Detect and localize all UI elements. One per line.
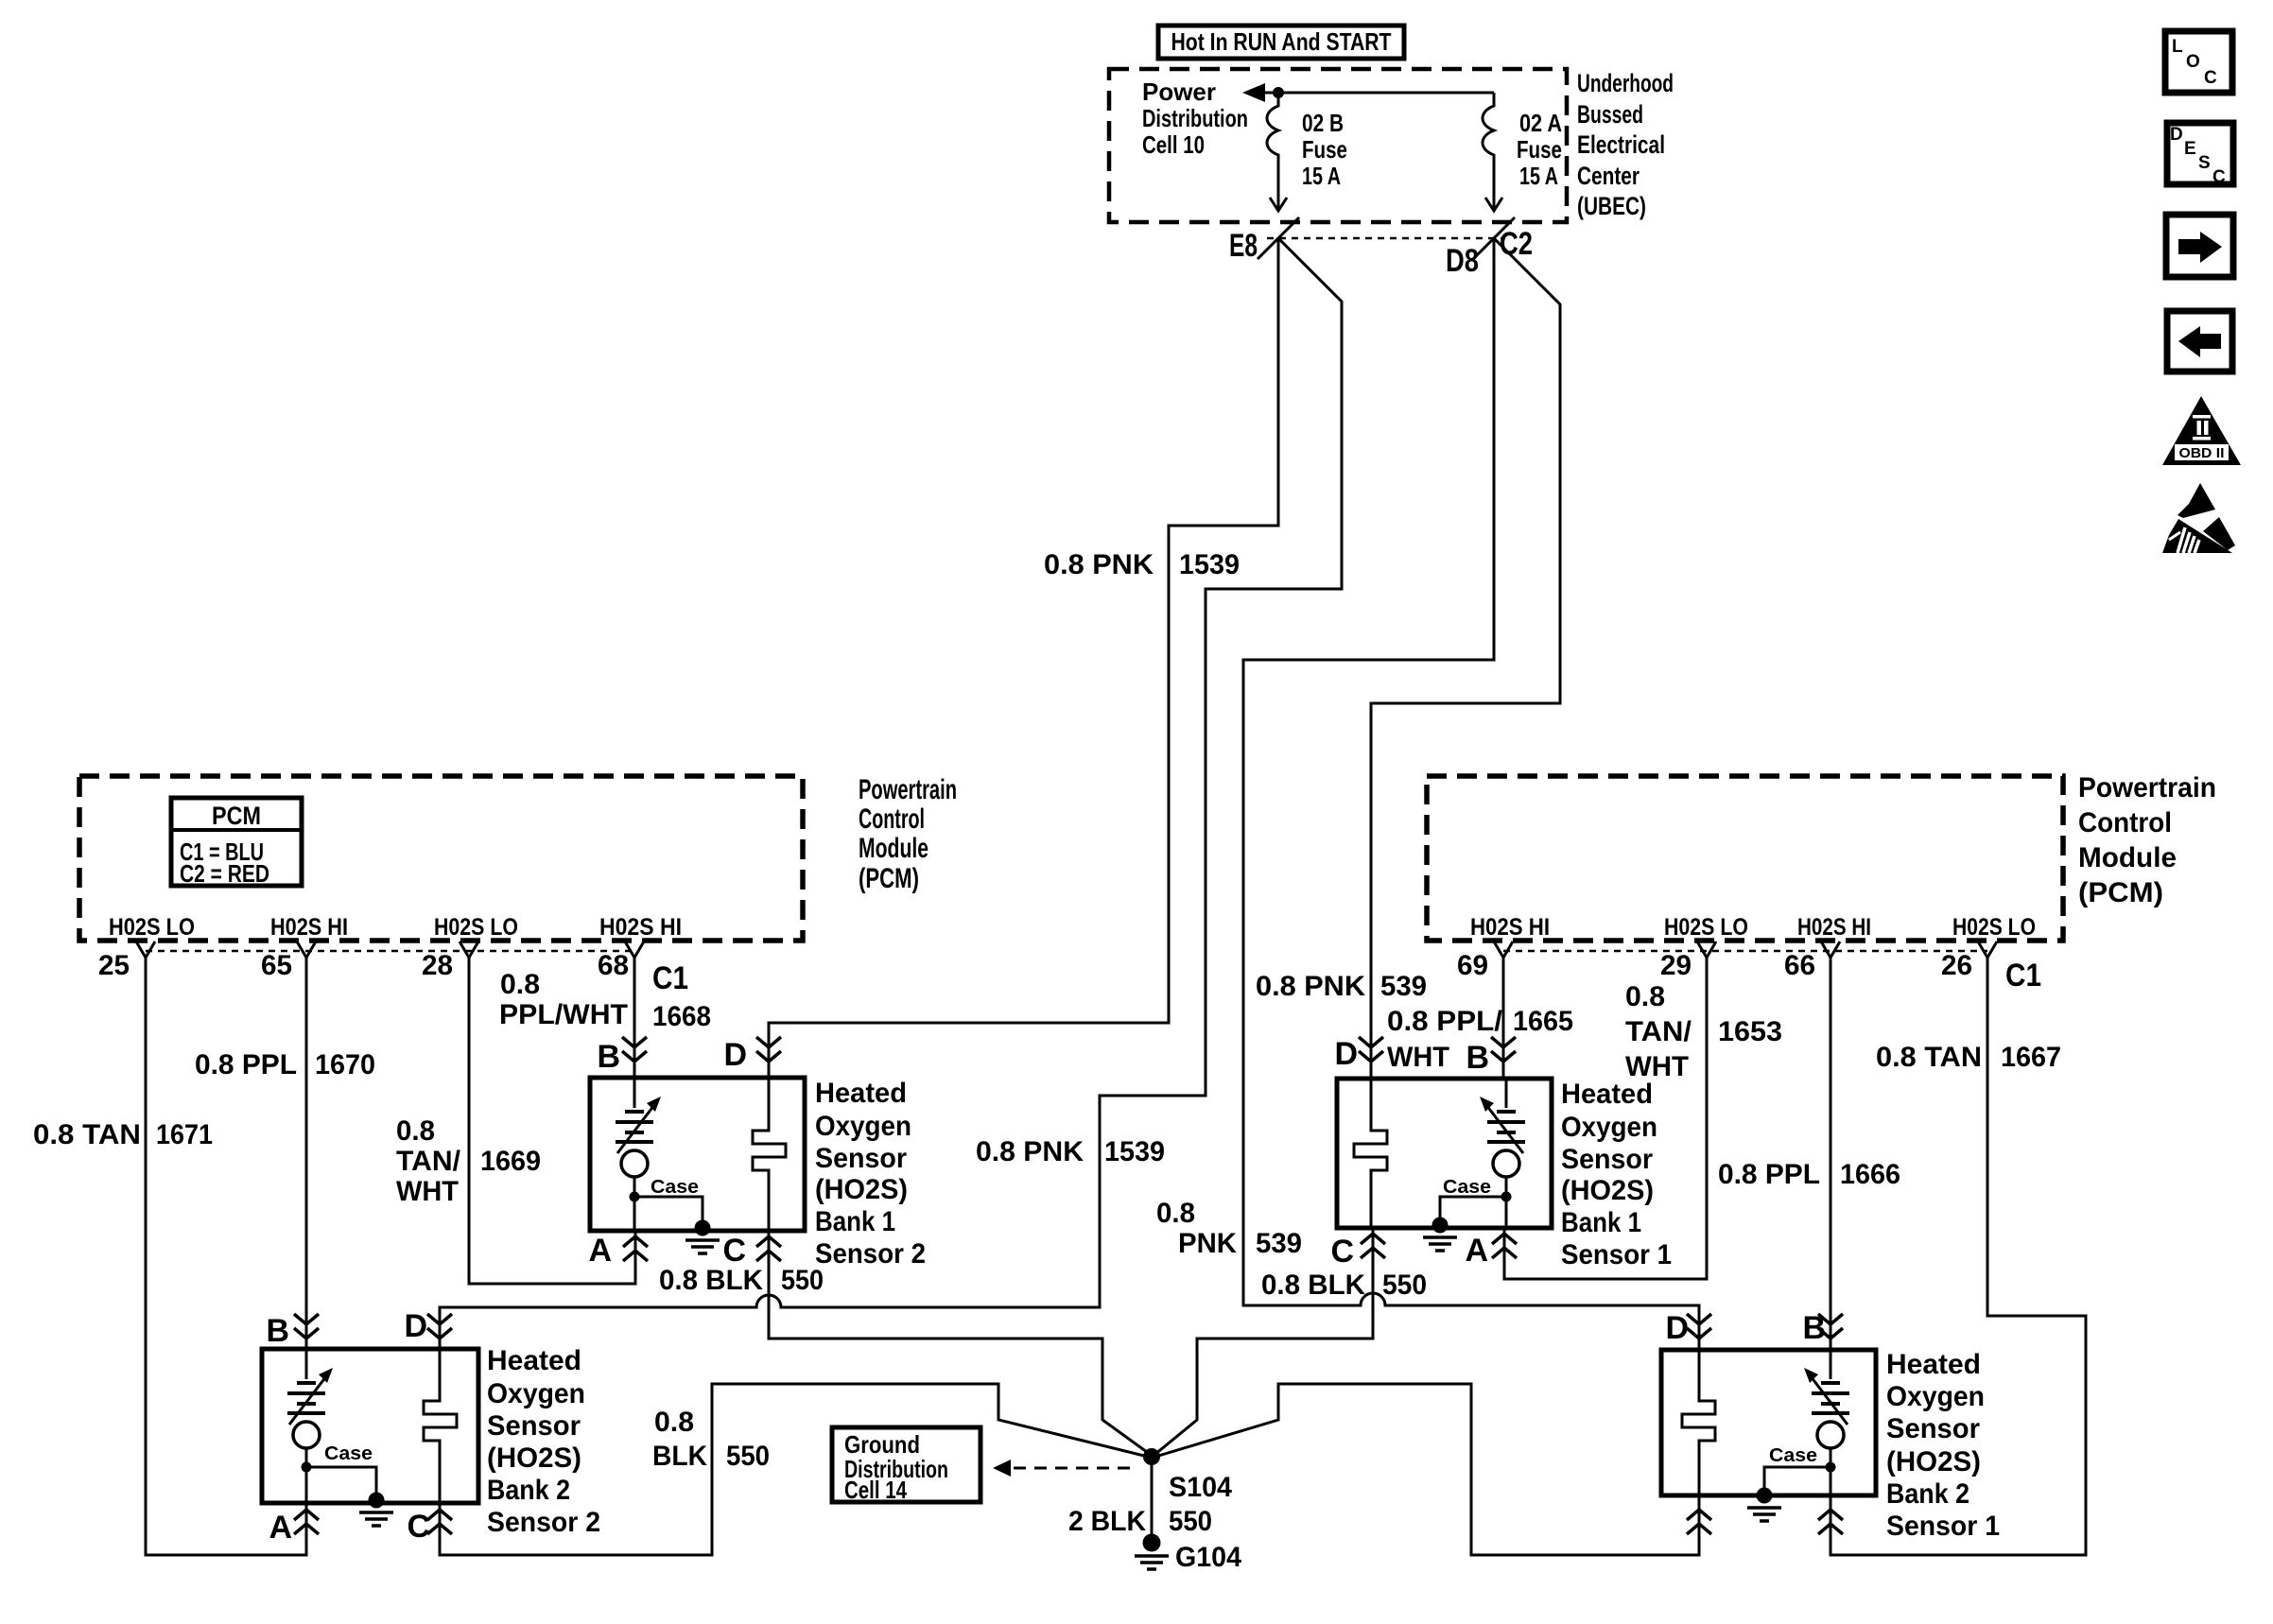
B1S1 internal ground [1423,1218,1457,1252]
svg-text:Hot In RUN And START: Hot In RUN And START [1171,27,1392,56]
svg-text:A: A [269,1510,292,1546]
B2S2 case node dot [302,1462,312,1473]
wire 2 BLK 550 S104 to G104 [1151,1457,1154,1539]
B1S2 pin B chevrons [622,1037,647,1062]
B2S1 pin D chevrons [1687,1314,1711,1339]
label 0.8 PPL/WHT 1668 [499,969,711,1032]
svg-text:0.8 PNK: 0.8 PNK [1044,549,1154,580]
UBEC dashed box [1109,69,1567,222]
label Underhood Bussed Electrical Center (UBEC) [1577,69,1674,220]
svg-text:TAN/: TAN/ [396,1146,461,1177]
fuse 02A 15A [1483,93,1562,211]
svg-text:Control: Control [859,803,925,835]
svg-text:D: D [2170,125,2183,145]
svg-text:Heated: Heated [815,1078,907,1109]
svg-text:Module: Module [2078,842,2177,873]
svg-text:Sensor 2: Sensor 2 [815,1238,926,1270]
B1S2 internal ground [685,1220,720,1254]
arrow to power distribution [1242,83,1265,102]
svg-text:B: B [1466,1040,1489,1076]
svg-text:1669: 1669 [480,1146,541,1177]
svg-text:H02S LO: H02S LO [1952,914,2036,941]
svg-text:Case: Case [324,1443,373,1464]
svg-text:Sensor 2: Sensor 2 [487,1507,600,1538]
svg-text:0.8 PPL/: 0.8 PPL/ [1387,1006,1503,1037]
svg-text:(PCM): (PCM) [859,863,919,894]
svg-text:Control: Control [2078,807,2172,838]
B1S2 label Heated Oxygen Sensor (HO2S) Bank 1 Sensor 2 [815,1078,926,1270]
icon OBD II triangle [2162,396,2241,465]
svg-text:550: 550 [726,1441,770,1472]
svg-text:02 A: 02 A [1519,109,1562,137]
svg-text:C: C [2204,68,2217,88]
svg-text:1653: 1653 [1718,1016,1782,1047]
B1S2 pin A chevrons [623,1236,648,1261]
svg-text:H02S HI: H02S HI [1470,914,1550,941]
svg-text:O: O [2186,52,2200,72]
B1S2 case wire to ground [634,1197,703,1224]
svg-text:H02S HI: H02S HI [599,914,682,941]
svg-text:Powertrain: Powertrain [859,774,957,805]
B2S2 heater element [424,1349,457,1503]
pin 69 [1457,942,1513,981]
svg-text:Bank 2: Bank 2 [487,1475,570,1506]
svg-text:550: 550 [1169,1506,1212,1537]
svg-text:Sensor: Sensor [487,1410,581,1442]
svg-text:1539: 1539 [1104,1136,1165,1167]
label 0.8 BLK 550 (B1S2) [659,1265,824,1296]
label 0.8 BLK 550 (B2S2) [652,1407,770,1472]
label 0.8 PPL 1666 [1718,1159,1900,1190]
svg-text:Bank 1: Bank 1 [1561,1207,1641,1238]
PCM left dashed box [79,776,803,941]
svg-text:550: 550 [1382,1270,1427,1301]
HO2S Bank2 Sensor2 box [262,1349,478,1503]
svg-text:PNK: PNK [1178,1228,1237,1259]
wire 0.8 TAN 1667 pin26 to HO2S B2S1 pin A [1831,976,2086,1555]
B1S1 label Heated Oxygen Sensor (HO2S) Bank 1 Sensor 1 [1561,1079,1672,1270]
svg-text:Power: Power [1142,78,1216,106]
B2S1 internal ground [1747,1488,1781,1522]
B2S1 pin B chevrons [1818,1314,1843,1339]
icon DESC box [2167,123,2233,187]
svg-text:PPL/WHT: PPL/WHT [499,999,628,1030]
svg-text:0.8: 0.8 [500,969,540,1000]
HO2S Bank1 Sensor1 box [1337,1079,1552,1228]
B1S2 pin D chevrons [756,1037,781,1062]
svg-text:C: C [407,1509,430,1545]
pin 68 [598,942,644,981]
svg-text:0.8 PPL: 0.8 PPL [1718,1159,1820,1190]
svg-text:C1: C1 [652,960,688,996]
svg-text:H02S LO: H02S LO [109,914,195,941]
B2S2 case wire to ground [306,1467,376,1495]
svg-text:Heated: Heated [1886,1349,1981,1380]
svg-text:2 BLK: 2 BLK [1068,1506,1146,1537]
wire 0.8 PNK 539 C2 to HO2S B1S1 pin D [1371,238,1560,1079]
svg-text:15 A: 15 A [1302,162,1341,190]
arrow to ground distribution [993,1460,1011,1477]
label 0.8 PNK 1539 upper [1044,549,1240,580]
B1S1 heater element [1354,1079,1387,1228]
svg-text:C: C [722,1233,746,1269]
svg-text:0.8: 0.8 [1625,981,1665,1012]
svg-text:B: B [597,1039,620,1075]
B2S2 sensing element (variable source) [287,1349,333,1503]
wire 0.8 BLK 550 from HO2S B1S2 pin C to S104 [769,1231,1151,1455]
svg-text:539: 539 [1256,1228,1302,1259]
icon ESD symbol [2162,483,2235,553]
B1S1 case wire to ground [1440,1197,1506,1221]
svg-text:0.8 BLK: 0.8 BLK [1261,1270,1365,1301]
svg-text:(HO2S): (HO2S) [487,1443,581,1474]
wire 0.8 PNK 1539 E8 to HO2S B1S2 pin D [769,238,1278,1078]
B1S1 sensing element (variable source) [1480,1079,1525,1228]
B2S2 pin D chevrons [427,1314,452,1339]
B1S1 pin C chevrons [1361,1234,1385,1258]
Ground Distribution Cell 14 box [832,1427,980,1504]
icon LOC box [2165,31,2232,93]
wire bus from fuses to arrow [1265,92,1494,95]
label 0.8 TAN/WHT 1653 [1625,981,1782,1082]
svg-text:26: 26 [1941,950,1972,981]
svg-text:29: 29 [1660,950,1692,981]
wire 0.8 PPL/WHT 1665 pin69 to HO2S B1S1 pin B [1502,976,1505,1079]
svg-text:1671: 1671 [156,1119,213,1150]
svg-text:Electrical: Electrical [1577,130,1665,159]
svg-text:Heated: Heated [1561,1079,1653,1110]
HO2S Bank1 Sensor2 box [590,1078,805,1231]
B1S1 case node dot [1501,1192,1512,1202]
svg-text:B: B [1802,1310,1826,1346]
B1S2 heater element [753,1078,786,1231]
B2S2 pin A chevrons [294,1510,319,1534]
svg-text:Underhood: Underhood [1577,69,1674,97]
B2S2 pin B chevrons [294,1314,319,1339]
B2S1 lower-left pin chevrons [1687,1510,1711,1534]
B2S2 internal ground [359,1493,393,1527]
svg-text:0.8: 0.8 [1156,1198,1195,1229]
svg-text:D8: D8 [1446,243,1479,279]
svg-text:539: 539 [1380,971,1427,1002]
svg-text:PCM: PCM [212,802,261,830]
svg-text:1668: 1668 [652,1001,711,1032]
svg-text:0.8: 0.8 [396,1115,435,1147]
svg-text:Sensor: Sensor [815,1143,907,1174]
svg-text:Cell 10: Cell 10 [1142,130,1205,159]
svg-text:Fuse: Fuse [1302,135,1347,164]
wire 0.8 BLK 550 from HO2S B2S2 pin C to S104 [440,1384,1148,1555]
svg-text:1665: 1665 [1513,1006,1573,1037]
wire 0.8 TAN 1671 pin25 to HO2S B2S2 pin A [146,976,306,1555]
label 0.8 PNK 539 lower [1156,1198,1302,1259]
B1S1 pin B chevrons [1491,1037,1516,1062]
B2S1 heater element [1682,1350,1715,1495]
svg-text:0.8 PNK: 0.8 PNK [976,1136,1084,1167]
HO2S Bank2 Sensor1 box [1661,1350,1876,1495]
svg-text:B: B [266,1313,289,1349]
svg-text:E: E [2184,139,2196,159]
svg-text:Oxygen: Oxygen [815,1111,911,1142]
wire from HO2S B2S1 ground pin to S104 [1155,1384,1699,1555]
svg-text:Oxygen: Oxygen [487,1378,585,1409]
svg-text:OBD II: OBD II [2179,445,2225,461]
svg-text:1670: 1670 [315,1049,375,1080]
wire 0.8 PPL/WHT 1668 pin68 to HO2S B1S2 pin B [633,976,636,1078]
svg-text:0.8 BLK: 0.8 BLK [659,1265,763,1296]
wire 0.8 TAN/WHT 1653 pin29 to HO2S B1S1 pin A [1504,976,1707,1279]
right PCM connector C1 dashed line [1503,950,1987,953]
label 0.8 PPL/WHT 1665 [1387,1006,1573,1073]
svg-text:Bussed: Bussed [1577,100,1643,129]
B2S1 lower-right pin chevrons [1818,1510,1843,1534]
svg-text:Distribution: Distribution [1142,104,1248,132]
svg-text:A: A [588,1233,612,1269]
svg-text:BLK: BLK [652,1441,707,1472]
icon back arrow box [2167,311,2232,371]
label 0.8 PPL 1670 [195,1049,375,1080]
label 0.8 PNK 1539 lower [976,1136,1165,1167]
svg-text:Heated: Heated [487,1345,581,1376]
svg-text:Sensor 1: Sensor 1 [1886,1511,2000,1542]
svg-text:TAN/: TAN/ [1625,1016,1692,1047]
splice S104 [1143,1448,1160,1465]
svg-text:Case: Case [1769,1445,1817,1466]
svg-text:Sensor: Sensor [1886,1413,1980,1444]
svg-text:C: C [2212,167,2226,187]
icon forward arrow box [2166,215,2233,277]
B1S1 pin D chevrons [1359,1037,1383,1062]
label Powertrain Control Module (PCM) right [2078,772,2216,908]
svg-text:0.8 TAN: 0.8 TAN [1876,1042,1982,1073]
svg-text:1539: 1539 [1179,549,1240,580]
svg-text:S104: S104 [1169,1472,1232,1503]
svg-text:Oxygen: Oxygen [1886,1381,1985,1412]
B2S1 sensing element (variable source) [1804,1350,1849,1495]
svg-text:1667: 1667 [2001,1042,2061,1073]
svg-text:WHT: WHT [396,1176,459,1207]
connector pin C2 [1473,217,1533,262]
svg-text:1666: 1666 [1840,1159,1900,1190]
svg-text:D: D [1334,1036,1358,1072]
connector pin E8 [1229,217,1299,264]
label 0.8 TAN 1671 [33,1119,213,1150]
svg-text:(HO2S): (HO2S) [1561,1175,1654,1206]
svg-text:25: 25 [98,950,130,981]
svg-text:Cell 14: Cell 14 [844,1476,907,1504]
svg-text:D: D [404,1308,427,1344]
svg-text:Bank 1: Bank 1 [815,1206,895,1237]
svg-text:C2 = RED: C2 = RED [180,859,269,888]
svg-text:69: 69 [1457,950,1488,981]
pin 26 [1941,942,1997,981]
pin 25 [98,942,155,981]
svg-text:H02S HI: H02S HI [270,914,348,941]
label Powertrain Control Module (PCM) left [859,774,957,894]
B1S1 pin A chevrons [1492,1234,1517,1258]
svg-text:0.8 PNK: 0.8 PNK [1256,971,1365,1002]
svg-text:(HO2S): (HO2S) [815,1174,908,1205]
svg-text:H02S LO: H02S LO [1664,914,1748,941]
svg-text:H02S HI: H02S HI [1797,914,1871,941]
label 0.8 PNK 539 upper [1256,971,1427,1002]
pin 29 [1660,942,1716,981]
svg-text:65: 65 [261,950,292,981]
fuse 02B 15A [1267,93,1347,211]
svg-text:Center: Center [1577,162,1640,190]
svg-text:Oxygen: Oxygen [1561,1112,1657,1143]
svg-text:28: 28 [422,950,453,981]
wire 0.8 PPL 1670 pin65 to HO2S B2S2 pin B [305,976,308,1349]
svg-text:L: L [2172,37,2183,57]
svg-text:Bank 2: Bank 2 [1886,1478,1969,1510]
wire 0.8 BLK 550 from HO2S B1S1 pin C to S104 [1154,1228,1373,1455]
svg-text:C1: C1 [2005,958,2041,993]
pin 28 [422,942,478,981]
B2S1 case node dot [1826,1462,1836,1473]
ground G104 [1135,1534,1169,1570]
B2S1 label Heated Oxygen Sensor (HO2S) Bank 2 Sensor 1 [1886,1349,2000,1542]
node junction dot above fuse 02B [1273,87,1284,98]
B2S2 pin C chevrons [427,1510,452,1534]
pin 66 [1784,942,1840,981]
PCM legend box C1=BLU C2=RED [171,798,302,888]
hot feed title box [1158,26,1404,59]
svg-text:0.8: 0.8 [654,1407,694,1438]
svg-text:A: A [1465,1233,1488,1269]
svg-text:H02S LO: H02S LO [434,914,518,941]
wire 0.8 PPL 1666 pin66 to HO2S B2S1 pin B [1830,976,1832,1350]
svg-text:D: D [1665,1310,1689,1346]
svg-text:S: S [2198,153,2211,173]
svg-text:68: 68 [598,950,629,981]
B1S2 case node dot [630,1192,640,1202]
svg-text:(HO2S): (HO2S) [1886,1446,1981,1477]
B2S1 case wire to ground [1764,1467,1831,1492]
wire 0.8 PNK 1539 E8 to HO2S B2S2 pin D [440,238,1342,1349]
pin 65 [261,942,316,981]
label 0.8 BLK 550 (B1S1) [1261,1270,1427,1301]
label Power Distribution Cell 10 [1142,78,1248,159]
svg-text:WHT: WHT [1387,1042,1449,1073]
svg-text:G104: G104 [1175,1542,1241,1573]
svg-text:C2: C2 [1500,226,1533,262]
wire 0.8 PNK 539 D8 to HO2S B2S1 pin D [1243,238,1699,1350]
svg-text:C: C [1330,1234,1354,1270]
svg-text:Powertrain: Powertrain [2078,772,2216,803]
svg-text:(UBEC): (UBEC) [1577,192,1646,220]
svg-text:15 A: 15 A [1519,162,1558,190]
svg-text:0.8 PPL: 0.8 PPL [195,1049,297,1080]
svg-text:02 B: 02 B [1302,109,1344,137]
svg-text:(PCM): (PCM) [2078,877,2163,908]
B1S2 pin C chevrons [756,1236,781,1261]
svg-text:Case: Case [651,1177,699,1198]
PCM right dashed box [1427,776,2063,941]
svg-text:E8: E8 [1229,228,1258,264]
svg-text:Case: Case [1443,1177,1491,1198]
svg-text:D: D [723,1037,747,1073]
svg-text:Fuse: Fuse [1517,135,1562,164]
svg-text:0.8 TAN: 0.8 TAN [33,1119,141,1150]
label 0.8 TAN/WHT 1669 [396,1115,541,1207]
svg-text:Sensor 1: Sensor 1 [1561,1239,1672,1270]
B2S2 label Heated Oxygen Sensor (HO2S) Bank 2 Sensor 2 [487,1345,600,1538]
svg-text:Module: Module [859,833,928,864]
UBEC connector dashed line [1267,237,1505,240]
svg-text:66: 66 [1784,950,1815,981]
dashed reference wire to S104 [1014,1467,1135,1470]
B1S2 sensing element (variable source) [616,1078,661,1231]
wire 0.8 TAN/WHT 1669 pin28 to HO2S B1S2 pin A [469,976,635,1284]
label 2 BLK 550 [1068,1506,1212,1537]
label 0.8 TAN 1667 [1876,1042,2061,1073]
left PCM connector C1 dashed line [146,950,635,953]
svg-text:Sensor: Sensor [1561,1144,1653,1175]
